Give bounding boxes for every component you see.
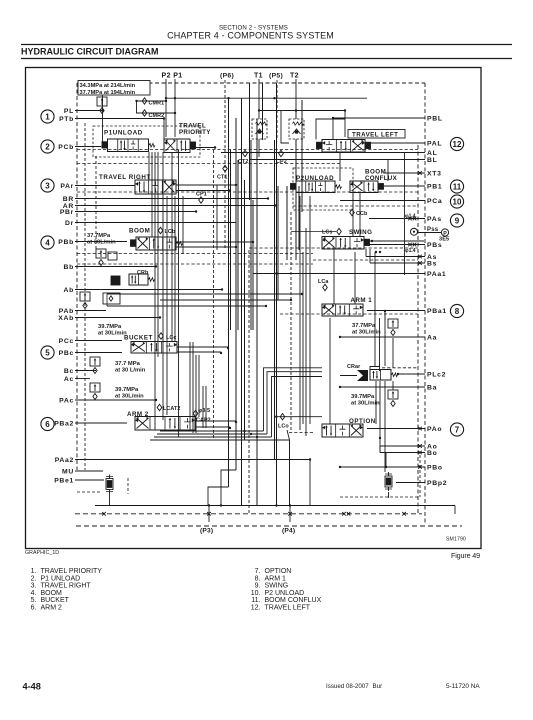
check CT2 — [243, 150, 248, 156]
wire arm2 ladder d — [150, 439, 290, 441]
wire CMR2 — [136, 112, 175, 114]
wire PTb riser — [163, 119, 165, 140]
svg-text:(P4): (P4) — [282, 528, 295, 535]
port line As — [366, 256, 425, 258]
bus wire left — [182, 196, 184, 254]
svg-text:3: 3 — [45, 181, 50, 190]
check LCAT2 — [157, 404, 162, 410]
bus wire — [295, 139, 297, 260]
svg-text:Ab: Ab — [64, 287, 74, 294]
svg-text:PLc2: PLc2 — [427, 371, 446, 378]
svg-text:PBs: PBs — [427, 242, 442, 249]
callout circle 4 — [41, 236, 54, 249]
svg-text:PRIORITY: PRIORITY — [179, 129, 211, 136]
x mark — [402, 512, 406, 516]
svg-text:T2: T2 — [290, 73, 299, 80]
svg-text:37.7MPa: 37.7MPa — [87, 233, 111, 239]
svg-text:Issued 08-2007: Issued 08-2007 — [326, 683, 369, 690]
svg-text:Ba: Ba — [427, 384, 437, 391]
svg-text:Figure 49: Figure 49 — [451, 551, 480, 560]
svg-text:GRAPHIC_1D: GRAPHIC_1D — [25, 550, 59, 556]
bus wire left — [192, 342, 194, 433]
callout circle 6 — [41, 417, 54, 430]
wire arm2 out b — [195, 426, 230, 428]
valve P1 unload — [108, 139, 149, 152]
svg-text:BOOM: BOOM — [129, 228, 150, 235]
wire As riser — [365, 249, 367, 257]
callout circle 1 — [41, 110, 54, 123]
svg-text:CT2: CT2 — [238, 159, 248, 165]
bus wire — [250, 140, 252, 330]
svg-text:PAs: PAs — [427, 216, 442, 223]
bus wire left — [171, 152, 173, 342]
bus wire right — [305, 228, 307, 436]
comp Aa relief — [388, 319, 398, 328]
boom reducer2 — [108, 252, 117, 260]
svg-text:7.: 7. — [255, 568, 261, 575]
port line Bs — [370, 262, 425, 264]
pilot dashed row1 — [77, 149, 418, 151]
bus wire — [252, 200, 254, 330]
check CCb — [350, 209, 355, 215]
svg-text:3.: 3. — [31, 583, 37, 590]
port line Dr — [75, 222, 236, 224]
travel left loop — [316, 119, 345, 140]
junction T2 — [295, 109, 297, 111]
x mark — [418, 444, 422, 448]
bus wire right — [392, 338, 394, 368]
bend wire b — [221, 470, 236, 506]
svg-text:PBo: PBo — [427, 464, 443, 471]
dashed box MU — [77, 491, 101, 493]
svg-text:PAa1: PAa1 — [427, 271, 446, 278]
callout circle 7 — [450, 423, 463, 436]
dashed box MU right — [127, 478, 129, 494]
port line Ab — [75, 289, 222, 291]
svg-text:PCc: PCc — [59, 338, 74, 345]
check LCc — [159, 333, 164, 339]
junction — [214, 146, 216, 148]
svg-text:CMR2: CMR2 — [149, 113, 165, 119]
port line PCc — [75, 340, 122, 342]
port line PAc — [75, 399, 156, 401]
port line P3 — [208, 506, 210, 523]
svg-text:XT3: XT3 — [427, 170, 442, 177]
svg-text:10: 10 — [453, 197, 462, 206]
valve block boundary left — [76, 83, 78, 470]
valve block boundary right — [424, 83, 426, 525]
valve boom conflux — [350, 181, 378, 193]
svg-text:1: 1 — [45, 112, 50, 121]
bottom dashed line 1 — [75, 513, 422, 515]
bend crar c — [272, 377, 323, 438]
port line AL — [221, 152, 425, 154]
wire CMR junction — [135, 100, 137, 102]
x mark — [418, 261, 422, 265]
svg-text:SM1790: SM1790 — [446, 537, 466, 543]
svg-text:LCo: LCo — [278, 424, 289, 430]
svg-text:PAr: PAr — [60, 183, 74, 190]
svg-text:11: 11 — [453, 182, 462, 191]
wire Bs riser — [369, 249, 371, 263]
bus wire left — [151, 152, 153, 237]
bus wire right — [302, 252, 304, 424]
section box P1 unload — [93, 126, 200, 157]
svg-text:4.: 4. — [31, 590, 37, 597]
pilot dashed row arm1 — [280, 313, 418, 315]
svg-text:TRAVEL PRIORITY: TRAVEL PRIORITY — [41, 568, 103, 575]
dashed option bottom — [340, 496, 420, 498]
port line Aa — [340, 336, 425, 338]
valve travel right — [135, 180, 176, 194]
pump flow note box — [78, 81, 150, 96]
svg-text:5: 5 — [45, 348, 50, 357]
bus wire right — [379, 318, 381, 367]
pump header dots — [227, 97, 229, 99]
svg-text:5-11720 NA: 5-11720 NA — [446, 683, 480, 690]
wire priority out — [196, 147, 215, 149]
svg-text:37.7MPa: 37.7MPa — [352, 323, 376, 329]
svg-text:PBr: PBr — [60, 209, 74, 216]
valve travel left — [322, 140, 365, 153]
port line PAo — [367, 428, 425, 430]
wire Ao step — [380, 446, 386, 467]
x mark — [408, 243, 412, 247]
port line Bc — [75, 370, 96, 372]
valve bucket — [131, 342, 177, 354]
wire CMR drop — [136, 101, 138, 113]
svg-text:4-48: 4-48 — [23, 682, 41, 692]
bus wire — [235, 118, 237, 470]
svg-text:CAP2: CAP2 — [196, 418, 211, 424]
bus wire — [228, 98, 230, 487]
pilot dashed row p2u — [293, 205, 418, 207]
svg-text:LCAT2: LCAT2 — [163, 406, 180, 412]
svg-text:φ1.4: φ1.4 — [405, 214, 416, 220]
svg-text:Dr: Dr — [65, 220, 74, 227]
svg-text:8: 8 — [455, 307, 460, 316]
pilot dashed crar — [382, 367, 418, 369]
dashed option vert — [419, 455, 421, 497]
callout circle 10 — [450, 195, 463, 208]
x mark — [413, 243, 417, 247]
pilot dashed row3 — [77, 191, 418, 193]
pilot drain dashed — [95, 156, 97, 250]
svg-text:PAc: PAc — [59, 397, 74, 404]
svg-text:8.: 8. — [255, 575, 261, 582]
tank line T1 — [258, 79, 260, 119]
bus wire right — [359, 193, 361, 237]
svg-text:12.: 12. — [251, 605, 261, 612]
bus wire — [244, 180, 246, 440]
svg-text:at 30L/min: at 30L/min — [87, 240, 116, 246]
svg-text:CHAPTER 4 - COMPONENTS SYSTEM: CHAPTER 4 - COMPONENTS SYSTEM — [167, 31, 334, 41]
callout circle 3 — [41, 179, 54, 192]
check CT1 — [223, 165, 228, 171]
svg-text:4: 4 — [45, 238, 50, 247]
svg-text:CRar: CRar — [347, 364, 361, 370]
bus wire right — [387, 160, 389, 182]
svg-text:BR: BR — [63, 196, 74, 203]
relief valve T1 — [252, 119, 267, 139]
svg-text:6.: 6. — [31, 605, 37, 612]
bus wire right — [379, 381, 381, 438]
valve block boundary right inner — [417, 145, 419, 515]
wire boom out b — [176, 246, 236, 248]
callout circle 5 — [41, 346, 54, 359]
pilot dashed row swing — [249, 247, 418, 249]
bottom dashed line 2 — [76, 525, 462, 527]
valve boom — [136, 237, 176, 250]
pilot line P5 — [276, 80, 278, 140]
wire T1 T2 header — [259, 110, 345, 112]
svg-text:PCa: PCa — [427, 198, 442, 205]
x mark — [418, 255, 422, 259]
svg-text:Bc: Bc — [64, 368, 74, 375]
svg-text:CP2: CP2 — [276, 159, 287, 165]
boom reducer — [96, 249, 106, 258]
check valve CMR1 — [142, 98, 147, 104]
wire P4 descender — [289, 440, 291, 506]
bus wire right — [352, 193, 354, 237]
port line PCa — [340, 200, 425, 202]
pilot bus dashed mid — [213, 150, 215, 440]
bus wire right — [392, 381, 394, 390]
svg-text:ARM 1: ARM 1 — [265, 575, 287, 582]
bend crar b — [267, 372, 322, 434]
svg-text:PB1: PB1 — [427, 183, 442, 190]
port line P1 — [174, 79, 176, 137]
pump relief valve — [97, 97, 107, 106]
wire mid long b — [160, 299, 291, 301]
svg-text:BOOM: BOOM — [41, 590, 63, 597]
check LCb — [158, 227, 163, 233]
svg-text:TRAVEL LEFT: TRAVEL LEFT — [352, 131, 398, 138]
pilot dashed swing — [77, 263, 313, 265]
wire swing mid — [291, 231, 336, 233]
x mark — [418, 451, 422, 455]
port line PCb — [75, 146, 101, 148]
bus wire right — [309, 196, 311, 424]
svg-text:PCb: PCb — [58, 144, 74, 151]
svg-text:CP1: CP1 — [196, 192, 207, 198]
figure frame — [26, 68, 482, 549]
port line PBe1 — [75, 479, 104, 481]
travel left feed — [344, 111, 346, 138]
svg-text:Ac: Ac — [64, 376, 74, 383]
junction dots — [165, 100, 167, 102]
port line PAa1 — [253, 273, 425, 275]
svg-text:7: 7 — [455, 425, 460, 434]
comp CRb tri — [111, 276, 120, 285]
wire relief T1 down — [258, 139, 260, 157]
valve block boundary top — [77, 82, 425, 84]
port line Ac — [75, 378, 90, 380]
bus wire left — [202, 386, 204, 428]
check LCs — [337, 228, 342, 234]
bus wire left — [174, 196, 176, 342]
pilot dashed row2 — [77, 163, 340, 165]
svg-text:11.: 11. — [251, 597, 260, 604]
port line Ba — [340, 386, 425, 388]
wire CRb row — [80, 289, 111, 291]
svg-text:9: 9 — [455, 216, 460, 225]
svg-text:PAo: PAo — [427, 426, 442, 433]
svg-text:P1UNLOAD: P1UNLOAD — [104, 130, 143, 137]
bus wire left — [189, 342, 191, 430]
bus wire right — [299, 196, 301, 430]
svg-text:(P6): (P6) — [220, 73, 234, 80]
x mark — [413, 217, 417, 221]
svg-text:5.: 5. — [31, 597, 37, 604]
svg-text:PAa2: PAa2 — [55, 457, 74, 464]
comp Ba relief — [388, 390, 398, 399]
wire option down a — [379, 438, 381, 453]
valve P2 unload — [296, 181, 335, 193]
bus wire left — [154, 152, 156, 430]
svg-text:PBL: PBL — [427, 115, 443, 122]
wire PBL riser — [332, 118, 334, 140]
port line PBp2 — [396, 482, 425, 484]
x mark — [408, 217, 412, 221]
valve arm2 — [135, 417, 195, 431]
svg-text:ARM 1: ARM 1 — [351, 297, 373, 304]
svg-text:Bur: Bur — [373, 683, 383, 690]
svg-text:12: 12 — [453, 140, 462, 149]
port line PAb — [75, 310, 106, 312]
bus wire left — [157, 152, 159, 357]
svg-text:(P3): (P3) — [200, 528, 213, 535]
port circle Pss — [411, 228, 418, 235]
svg-text:2: 2 — [45, 142, 50, 151]
port line PBs — [369, 244, 425, 246]
svg-text:TRAVEL LEFT: TRAVEL LEFT — [265, 605, 311, 612]
port line P2 — [165, 79, 167, 137]
wire PAa1 long — [253, 273, 425, 275]
valve swing — [322, 237, 364, 250]
relief valve T2 — [289, 119, 304, 139]
port line AR — [75, 205, 276, 207]
x mark — [207, 512, 211, 516]
bus wire right — [329, 318, 331, 424]
bus wire left — [162, 152, 164, 420]
svg-text:BOOM CONFLUX: BOOM CONFLUX — [265, 597, 322, 604]
bus wire — [298, 186, 300, 250]
bus wire — [277, 186, 279, 300]
comp CRar block — [357, 370, 368, 381]
wire travel right b — [176, 190, 230, 192]
check valve CMR2 — [142, 110, 147, 116]
svg-text:OPTION: OPTION — [265, 568, 292, 575]
comp Bc relief — [90, 357, 100, 366]
bus wire left — [198, 355, 200, 417]
svg-text:Bb: Bb — [64, 264, 74, 271]
callout circle 8 — [450, 304, 463, 317]
bend wire f — [287, 430, 290, 506]
wire PAa2 drop — [309, 460, 311, 506]
svg-text:PBa2: PBa2 — [54, 420, 74, 427]
section box P2 unload — [293, 168, 353, 210]
bus wire — [237, 160, 239, 330]
svg-text:39.7MPa: 39.7MPa — [98, 324, 122, 330]
port line PBa2 — [75, 422, 127, 424]
svg-text:39.7MPa: 39.7MPa — [115, 387, 139, 393]
svg-text:Bo: Bo — [427, 450, 437, 457]
wire bus right end — [454, 506, 456, 515]
port line PAr — [75, 185, 135, 187]
callout circle 12 — [450, 137, 463, 150]
svg-text:37.7 MPa: 37.7 MPa — [115, 361, 141, 367]
check CP1 — [199, 197, 204, 203]
svg-text:PBe1: PBe1 — [54, 477, 74, 484]
svg-text:P2 P1: P2 P1 — [162, 73, 183, 80]
bus wire left — [205, 386, 207, 428]
check phi35 — [193, 410, 198, 416]
wire boom out a — [176, 241, 253, 243]
wire PL to relief — [102, 95, 104, 144]
port line PBb — [75, 241, 127, 243]
svg-text:2.: 2. — [31, 575, 37, 582]
port line PBo — [340, 466, 425, 468]
port line Ao — [380, 445, 425, 447]
bus wire right — [404, 153, 406, 276]
bus wire — [276, 83, 278, 506]
valve travel priority — [164, 139, 190, 153]
svg-text:CCb: CCb — [356, 211, 368, 217]
bus wire right — [375, 381, 377, 424]
svg-text:BUCKET: BUCKET — [41, 597, 70, 604]
svg-text:at 30L/min: at 30L/min — [98, 331, 127, 337]
svg-text:LCb: LCb — [165, 229, 176, 235]
svg-text:LCa: LCa — [318, 279, 329, 285]
svg-text:AL: AL — [427, 150, 437, 157]
bus wire right — [339, 152, 341, 181]
svg-text:(P5): (P5) — [269, 73, 283, 80]
pilot line P6 — [224, 80, 226, 250]
bus wire left — [195, 355, 197, 433]
bus wire — [262, 83, 264, 140]
tank line T2 — [295, 79, 297, 119]
bend wire a — [208, 487, 229, 506]
bus wire left — [216, 185, 218, 250]
svg-text:T1: T1 — [254, 73, 263, 80]
svg-text:PAL: PAL — [427, 140, 442, 147]
svg-text:at 30L/min: at 30L/min — [352, 330, 381, 336]
svg-text:MU: MU — [62, 468, 74, 475]
x mark — [342, 512, 346, 516]
port line MU — [75, 470, 103, 472]
port line PBc — [75, 352, 122, 354]
port line XT3 — [384, 172, 425, 174]
bus wire right — [354, 252, 356, 304]
bus wire left — [148, 152, 150, 180]
bus wire — [286, 186, 288, 260]
wire arm1 to comp — [384, 311, 386, 320]
bus wire right — [333, 249, 335, 304]
svg-text:φ1.4: φ1.4 — [405, 248, 416, 254]
x mark — [418, 427, 422, 431]
port line PL — [75, 110, 102, 112]
bend crar a — [264, 368, 323, 431]
wire travel right a — [176, 184, 236, 186]
svg-text:37.7MPa at 194L/min: 37.7MPa at 194L/min — [80, 90, 136, 96]
title rule — [21, 58, 512, 60]
comp Ac relief — [90, 383, 100, 392]
pilot dashed row option — [289, 432, 315, 434]
svg-text:PAb: PAb — [59, 308, 74, 315]
valve arm1 — [322, 304, 363, 316]
port line PAs — [369, 218, 425, 220]
